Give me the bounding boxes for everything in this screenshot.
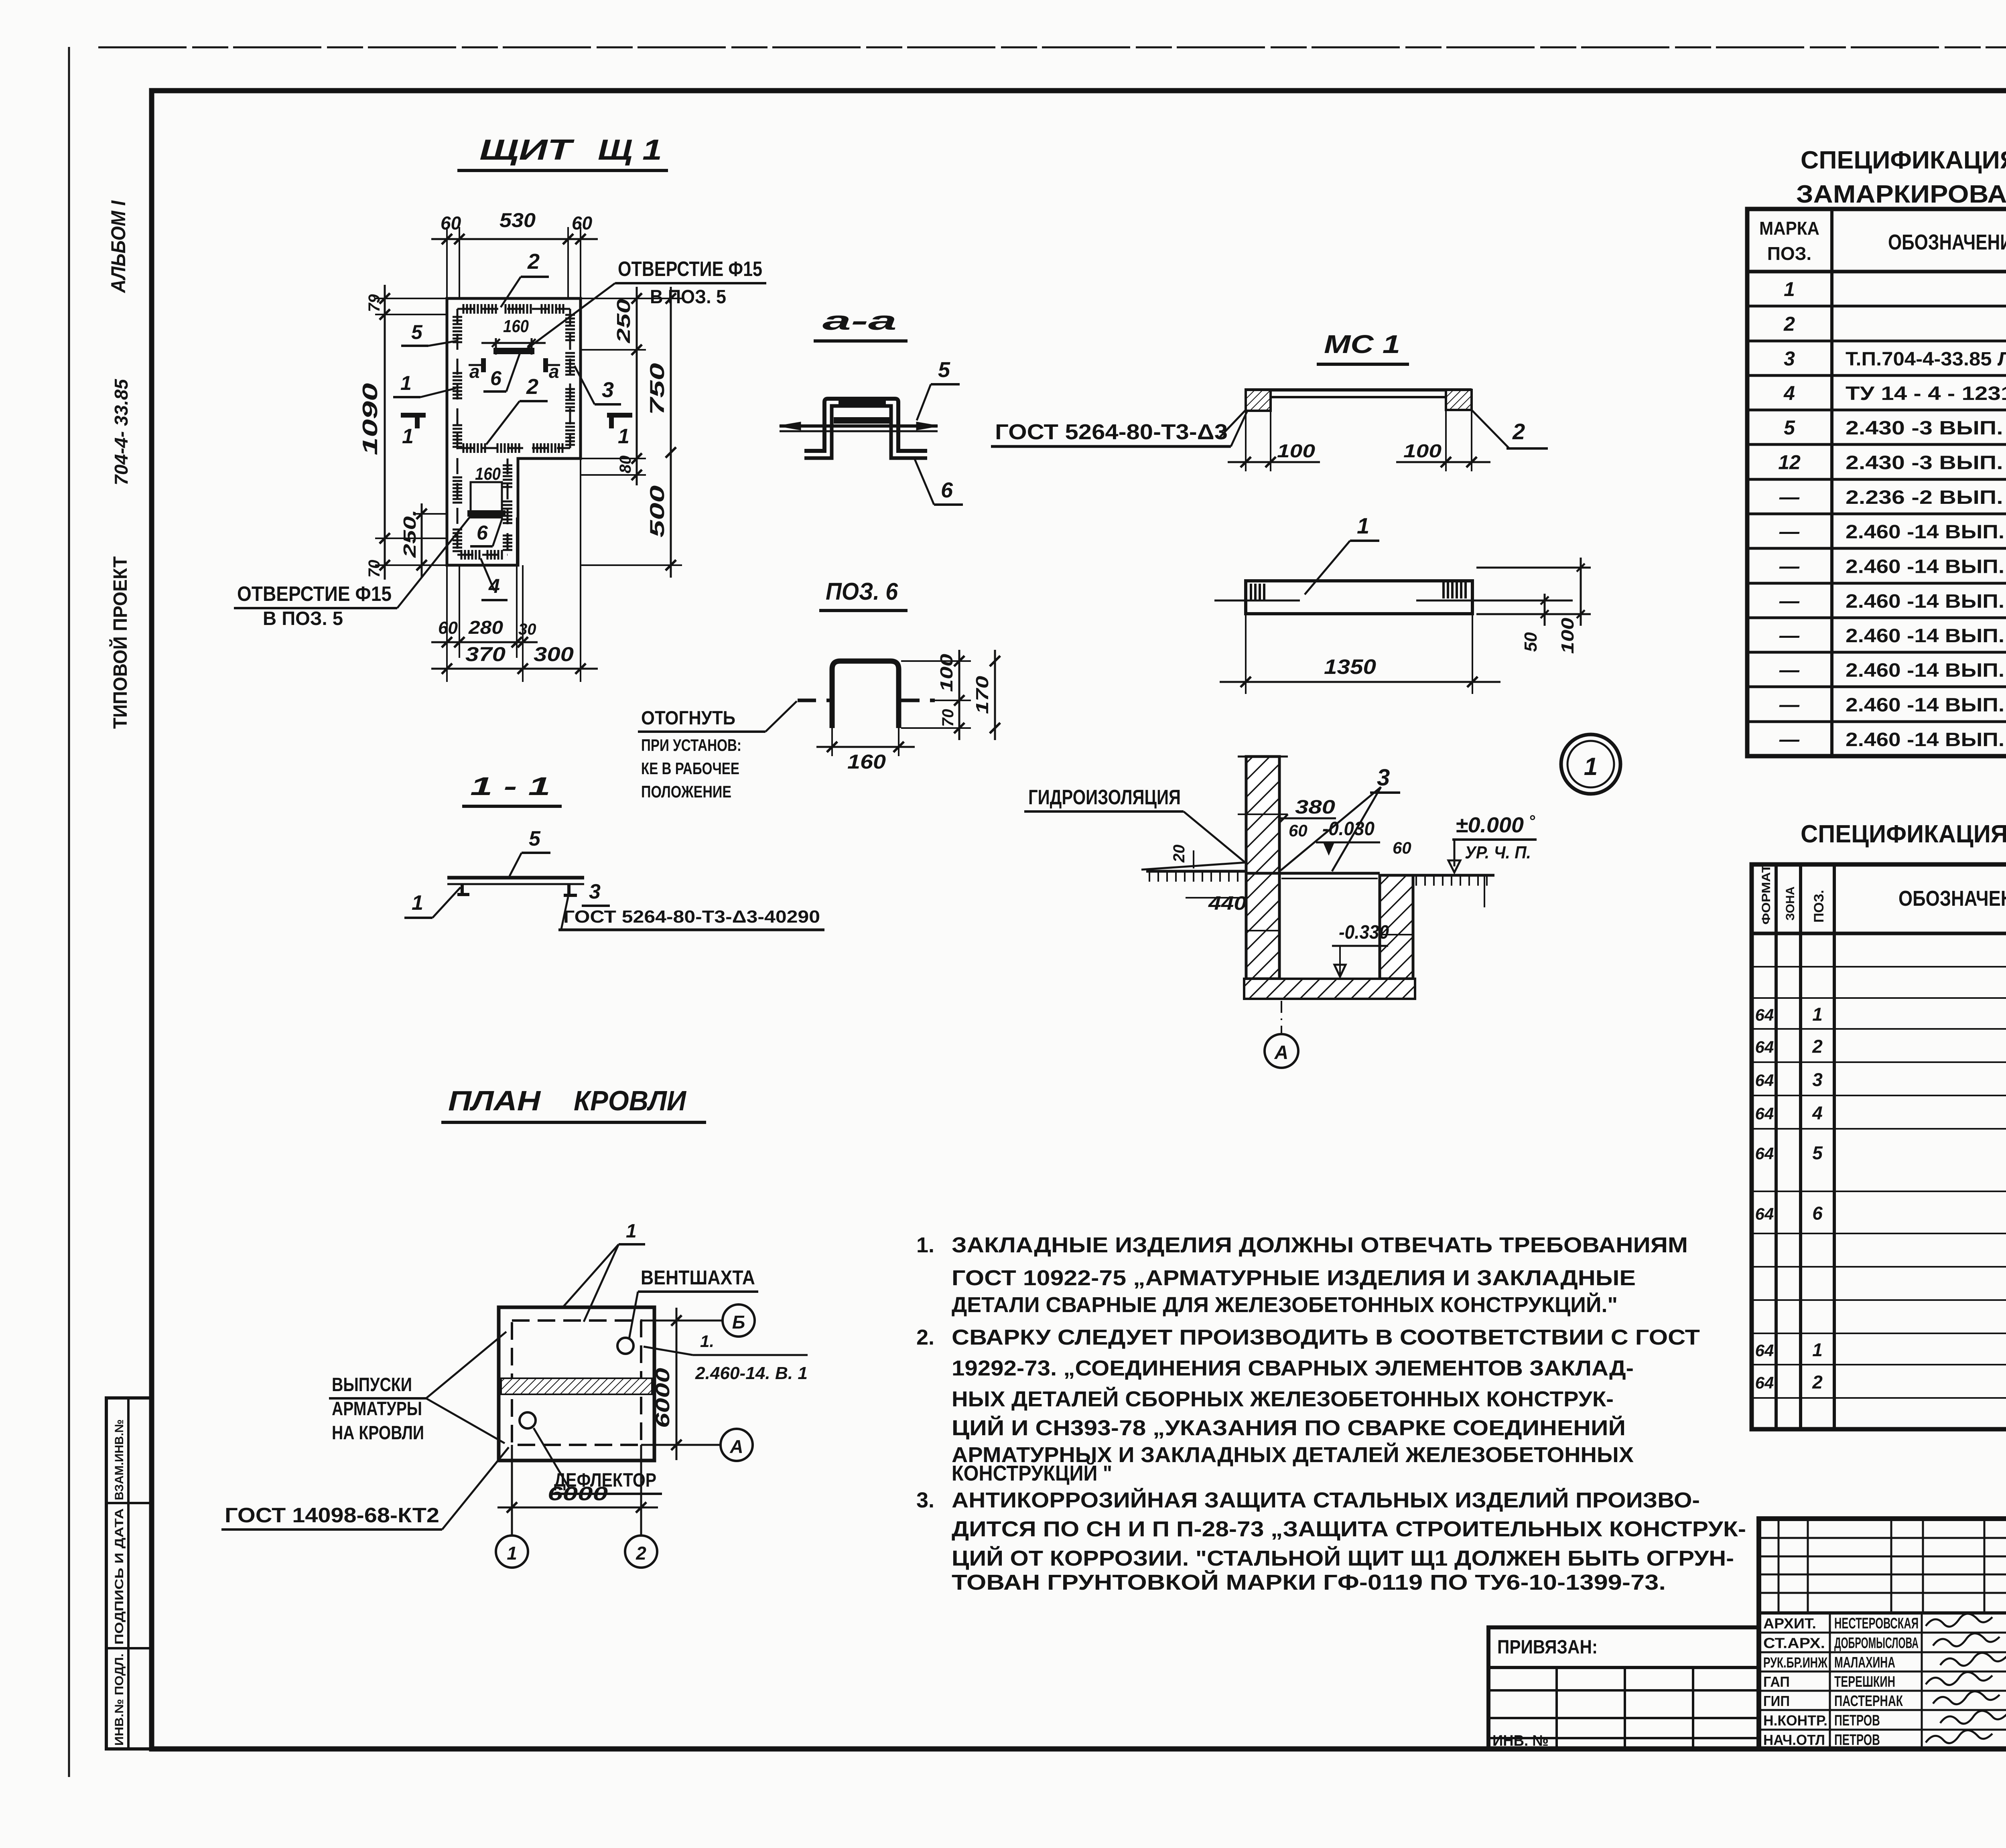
node: membrane [1141, 862, 1246, 870]
roof plan axis leader 2 [640, 1445, 642, 1536]
svg-text:60: 60 [441, 213, 461, 233]
svg-text:1 - 1: 1 - 1 [470, 772, 550, 801]
svg-text:ПОЗ.: ПОЗ. [1811, 890, 1827, 923]
roof plan inner dashed [512, 1321, 641, 1445]
svg-text:ГИДРОИЗОЛЯЦИЯ: ГИДРОИЗОЛЯЦИЯ [1028, 786, 1181, 809]
svg-text:500: 500 [646, 485, 668, 538]
svg-text:64: 64 [1755, 1205, 1774, 1223]
a-a weld scribble [834, 417, 890, 424]
svg-text:370: 370 [465, 643, 506, 665]
MC1 dim 1350 [1245, 614, 1247, 694]
svg-text:—: — [1779, 624, 1800, 647]
svg-text:1.: 1. [916, 1233, 934, 1257]
section mark 1 left [401, 413, 426, 418]
svg-text:3: 3 [602, 378, 614, 402]
svg-text:±0.000: ±0.000 [1456, 813, 1524, 837]
svg-text:ИНВ.№ ПОДЛ.: ИНВ.№ ПОДЛ. [113, 1653, 126, 1746]
node: axis circle A [1265, 1034, 1298, 1068]
svg-text:—: — [1779, 590, 1800, 612]
svg-text:1: 1 [507, 1543, 517, 1564]
svg-text:—: — [1779, 555, 1800, 578]
svg-text:ГАП: ГАП [1763, 1674, 1790, 1690]
svg-text:КЕ В РАБОЧЕЕ: КЕ В РАБОЧЕЕ [641, 759, 739, 778]
section mark a left [481, 358, 486, 372]
svg-text:170: 170 [973, 676, 992, 714]
node: wall above ground (hatched) [1246, 757, 1279, 873]
svg-text:ОБОЗНАЧЕНИЕ: ОБОЗНАЧЕНИЕ [1898, 886, 2006, 911]
svg-text:19292-73. „СОЕДИНЕНИЯ СВАРНЫХ: 19292-73. „СОЕДИНЕНИЯ СВАРНЫХ ЭЛЕМЕНТОВ … [952, 1356, 1634, 1380]
section mark 1 right [607, 413, 632, 418]
svg-text:2: 2 [1512, 419, 1525, 444]
axis circle A (plan) [721, 1429, 753, 1461]
svg-text:НЫХ ДЕТАЛЕЙ СБОРНЫХ ЖЕЛЕЗОБЕТО: НЫХ ДЕТАЛЕЙ СБОРНЫХ ЖЕЛЕЗОБЕТОННЫХ КОНСТ… [952, 1387, 1614, 1411]
svg-text:160: 160 [475, 464, 501, 484]
svg-text:2.460 -14 ВЫП. 1: 2.460 -14 ВЫП. 1 [1846, 695, 2006, 716]
svg-text:ТИПОВОЙ ПРОЕКТ: ТИПОВОЙ ПРОЕКТ [109, 556, 131, 729]
svg-text:704-4- 33.85: 704-4- 33.85 [111, 379, 132, 485]
svg-text:ДИТСЯ ПО СН И П П-28-73 „ЗАЩИТ: ДИТСЯ ПО СН И П П-28-73 „ЗАЩИТА СТРОИТЕЛ… [952, 1517, 1746, 1541]
svg-text:2.460 -14 ВЫП. 1: 2.460 -14 ВЫП. 1 [1846, 660, 2006, 681]
svg-text:Щ 1: Щ 1 [598, 134, 662, 166]
svg-text:1: 1 [412, 891, 423, 915]
svg-text:60: 60 [572, 213, 593, 233]
svg-text:64: 64 [1755, 1373, 1774, 1392]
MC1 dims 50/100 right [1476, 567, 1591, 569]
svg-text:100: 100 [937, 653, 956, 692]
svg-text:СВАРКУ СЛЕДУЕТ ПРОИЗВОДИТЬ В С: СВАРКУ СЛЕДУЕТ ПРОИЗВОДИТЬ В СООТВЕТСТВИ… [952, 1325, 1700, 1349]
svg-text:1: 1 [1784, 278, 1795, 300]
MC1 top plate [1245, 388, 1472, 392]
svg-text:1090: 1090 [359, 383, 382, 455]
MC1 bar centerline [1214, 600, 1300, 602]
svg-text:НА КРОВЛИ: НА КРОВЛИ [332, 1422, 424, 1444]
panel inner dashed weld lines [457, 308, 570, 310]
svg-text:-0.330: -0.330 [1339, 922, 1389, 943]
a-a tie rod with arrow ends [780, 424, 938, 428]
node: floor line over pit [1279, 872, 1380, 875]
svg-text:1: 1 [402, 425, 414, 448]
svg-text:50: 50 [1521, 632, 1541, 652]
svg-text:ТУ 14 - 4 - 1231- 83: ТУ 14 - 4 - 1231- 83 [1846, 383, 2006, 404]
svg-text:3.: 3. [916, 1488, 934, 1512]
svg-text:ЦИЙ ОТ КОРРОЗИИ. "СТАЛЬНОЙ ЩИТ: ЦИЙ ОТ КОРРОЗИИ. "СТАЛЬНОЙ ЩИТ Щ1 ДОЛЖЕН… [952, 1546, 1734, 1570]
svg-text:4: 4 [1812, 1103, 1823, 1124]
svg-text:ПЕТРОВ: ПЕТРОВ [1834, 1712, 1880, 1729]
svg-text:64: 64 [1755, 1144, 1774, 1163]
svg-text:60: 60 [1289, 821, 1308, 840]
svg-text:ОТОГНУТЬ: ОТОГНУТЬ [641, 708, 735, 729]
roof plan square [499, 1307, 654, 1461]
panel Sch1 outline [447, 298, 581, 565]
svg-text:А: А [729, 1436, 743, 1457]
MC1 right end block [1446, 390, 1472, 410]
svg-text:МАРКА: МАРКА [1759, 218, 1819, 239]
section mark a right [543, 358, 548, 372]
svg-text:2.430 -3 ВЫП. 2: 2.430 -3 ВЫП. 2 [1846, 418, 2006, 439]
svg-text:2.460 -14 ВЫП. 1: 2.460 -14 ВЫП. 1 [1846, 591, 2006, 612]
svg-text:ИНВ. №: ИНВ. № [1492, 1732, 1549, 1749]
svg-text:64: 64 [1755, 1038, 1774, 1057]
svg-text:АРМАТУРЫ: АРМАТУРЫ [332, 1398, 422, 1420]
MC1 leader to weld note [1220, 410, 1246, 437]
pos.6 dim 160 [831, 728, 833, 756]
svg-text:НАЧ.ОТЛ: НАЧ.ОТЛ [1763, 1732, 1825, 1748]
svg-text:2.460 -14 ВЫП. 1: 2.460 -14 ВЫП. 1 [1846, 625, 2006, 647]
svg-text:МС 1: МС 1 [1324, 330, 1400, 359]
svg-text:МАЛАХИНА: МАЛАХИНА [1834, 1654, 1895, 1671]
svg-text:А: А [1274, 1042, 1289, 1063]
svg-text:2.: 2. [916, 1325, 934, 1349]
roof plan axis leader 1 [511, 1445, 513, 1536]
pos.6 staple [832, 661, 899, 728]
node: ground line right [1413, 874, 1494, 877]
svg-text:ПАСТЕРНАК: ПАСТЕРНАК [1834, 1693, 1903, 1710]
svg-text:1: 1 [1812, 1339, 1823, 1360]
dim bottom 370/300 [580, 458, 581, 682]
svg-text:Н.КОНТР.: Н.КОНТР. [1763, 1712, 1827, 1729]
svg-text:ЩИТ: ЩИТ [479, 134, 575, 166]
svg-text:В ПОЗ. 5: В ПОЗ. 5 [650, 286, 726, 308]
weld tick marks top edge [463, 304, 465, 314]
weld tick marks middle edge [463, 443, 465, 453]
svg-text:АРХИТ.: АРХИТ. [1763, 1615, 1816, 1632]
roof plan dim 6000 bottom [511, 1461, 513, 1522]
axis circle B [723, 1304, 755, 1337]
svg-text:4: 4 [1783, 382, 1795, 404]
svg-text:КРОВЛИ: КРОВЛИ [574, 1085, 687, 1116]
svg-text:—: — [1779, 659, 1800, 681]
svg-text:ГОСТ 10922-75 „АРМАТУРНЫЕ ИЗДЕ: ГОСТ 10922-75 „АРМАТУРНЫЕ ИЗДЕЛИЯ И ЗАКЛ… [952, 1266, 1636, 1290]
svg-text:Б: Б [732, 1312, 745, 1333]
svg-text:100: 100 [1277, 440, 1316, 461]
svg-text:СПЕЦИФИКАЦИЯ ДЕТАЛЕЙ ЩИТА Щ: СПЕЦИФИКАЦИЯ ДЕТАЛЕЙ ЩИТА Щ1, ИЗДЕЛИЯ МС… [1801, 820, 2006, 848]
svg-text:2.460 -14 ВЫП. 1: 2.460 -14 ВЫП. 1 [1846, 556, 2006, 578]
MC1 dim 100 left [1245, 411, 1247, 471]
bottom hole 160 frame [471, 482, 502, 517]
svg-text:ПОЗ.: ПОЗ. [1767, 243, 1811, 264]
svg-text:ПЛАН: ПЛАН [448, 1085, 541, 1116]
node: pit left wall [1246, 873, 1279, 979]
svg-text:ПОЛОЖЕНИЕ: ПОЛОЖЕНИЕ [641, 782, 731, 801]
svg-text:80: 80 [617, 456, 634, 474]
svg-text:ДОБРОМЫСЛОВА: ДОБРОМЫСЛОВА [1834, 1635, 1919, 1652]
spec table 1 grid [1747, 209, 2006, 756]
pos.6 wire stubs dashed [798, 699, 830, 702]
svg-text:2.236 -2 ВЫП. 1: 2.236 -2 ВЫП. 1 [1846, 487, 2006, 508]
svg-text:ТОВАН ГРУНТОВКОЙ МАРКИ ГФ-0119: ТОВАН ГРУНТОВКОЙ МАРКИ ГФ-0119 ПО ТУ6-10… [952, 1570, 1666, 1594]
node: ground line left [1146, 870, 1246, 873]
svg-text:64: 64 [1755, 1104, 1774, 1123]
svg-text:5: 5 [938, 358, 950, 382]
svg-text:ГОСТ 5264-80-Т3-Δ3: ГОСТ 5264-80-Т3-Δ3 [995, 420, 1228, 444]
svg-text:ЗАКЛАДНЫЕ ИЗДЕЛИЯ ДОЛЖНЫ ОТВЕЧ: ЗАКЛАДНЫЕ ИЗДЕЛИЯ ДОЛЖНЫ ОТВЕЧАТЬ ТРЕБОВ… [952, 1233, 1688, 1257]
svg-text:ВЗАМ.ИНВ.№: ВЗАМ.ИНВ.№ [113, 1419, 126, 1500]
svg-text:60: 60 [438, 618, 458, 638]
page outer trim line top (dashed) [98, 47, 2006, 49]
svg-text:300: 300 [534, 643, 574, 665]
top hole slot (pos.6 bar) [493, 348, 534, 354]
svg-text:ФОРМАТ: ФОРМАТ [1760, 864, 1773, 925]
svg-text:12: 12 [1778, 451, 1801, 474]
svg-text:ГИП: ГИП [1763, 1693, 1790, 1709]
MC1 dim 100 right [1445, 410, 1447, 471]
svg-text:НЕСТЕРОВСКАЯ: НЕСТЕРОВСКАЯ [1834, 1615, 1919, 1632]
svg-text:1: 1 [1584, 753, 1598, 781]
svg-text:ПРИ УСТАНОВ:: ПРИ УСТАНОВ: [641, 736, 741, 755]
dim right 250/80 [581, 298, 646, 299]
svg-text:6: 6 [490, 367, 502, 389]
svg-text:3: 3 [1812, 1069, 1823, 1090]
privyazan box [1488, 1627, 1759, 1749]
svg-text:64: 64 [1755, 1071, 1774, 1090]
svg-text:2.460 -14 ВЫП. 1: 2.460 -14 ВЫП. 1 [1846, 521, 2006, 543]
MC1 left end block [1246, 390, 1271, 411]
svg-text:—: — [1779, 728, 1800, 751]
roof plan dim 6000 right [654, 1320, 690, 1321]
svg-text:УР. Ч. П.: УР. Ч. П. [1465, 843, 1531, 862]
title block frame [1759, 1519, 2006, 1749]
dim left 79/1090/70 [375, 298, 447, 299]
dim chain top 60/530/60 [446, 227, 448, 298]
dim right 750/500 [581, 298, 682, 299]
dim bottom 60/280/30 [446, 565, 448, 682]
dim 160 top hole [481, 342, 546, 344]
svg-text:ПЕТРОВ: ПЕТРОВ [1834, 1732, 1880, 1749]
svg-text:2.430 -3 ВЫП. 2: 2.430 -3 ВЫП. 2 [1846, 452, 2006, 474]
svg-text:20: 20 [1170, 845, 1188, 863]
svg-text:СТ.АРХ.: СТ.АРХ. [1763, 1635, 1825, 1651]
svg-text:РУК.БР.ИНЖ: РУК.БР.ИНЖ [1763, 1654, 1827, 1671]
svg-text:2: 2 [526, 375, 538, 399]
svg-text:100: 100 [1403, 440, 1442, 461]
weld tick marks lower strip [503, 465, 512, 467]
svg-text:ВЫПУСКИ: ВЫПУСКИ [332, 1374, 412, 1396]
svg-text:2: 2 [527, 250, 540, 274]
svg-text:6000: 6000 [652, 1368, 674, 1428]
svg-text:60: 60 [1393, 838, 1411, 857]
svg-text:ДЕТАЛИ СВАРНЫЕ ДЛЯ ЖЕЛЕЗОБЕТОН: ДЕТАЛИ СВАРНЫЕ ДЛЯ ЖЕЛЕЗОБЕТОННЫХ КОНСТР… [952, 1292, 1618, 1317]
svg-text:3: 3 [589, 880, 601, 903]
svg-text:6: 6 [941, 478, 953, 502]
svg-text:1: 1 [400, 372, 412, 394]
svg-text:ЦИЙ И СН393-78 „УКАЗАНИЯ ПО СВ: ЦИЙ И СН393-78 „УКАЗАНИЯ ПО СВАРКЕ СОЕДИ… [952, 1416, 1626, 1440]
svg-text:ГОСТ 5264-80-Т3-Δ3-40290: ГОСТ 5264-80-Т3-Δ3-40290 [563, 907, 820, 927]
svg-text:1.: 1. [700, 1332, 714, 1351]
svg-text:6: 6 [477, 521, 488, 544]
svg-text:2.460 -14 ВЫП. 1: 2.460 -14 ВЫП. 1 [1846, 729, 2006, 751]
node: pit bottom slab [1244, 979, 1415, 999]
ventshaft circle on plan [617, 1338, 633, 1354]
svg-text:ОТВЕРСТИЕ Ф15: ОТВЕРСТИЕ Ф15 [237, 582, 392, 606]
svg-text:5: 5 [1812, 1142, 1823, 1163]
svg-text:ВЕНТШАХТА: ВЕНТШАХТА [641, 1266, 755, 1289]
spec table 2 grid [1752, 864, 2006, 1429]
svg-text:1350: 1350 [1324, 655, 1376, 679]
svg-text:30: 30 [518, 621, 536, 638]
page outer trim line left [68, 47, 70, 1777]
svg-text:5: 5 [529, 827, 541, 850]
svg-text:°: ° [1529, 812, 1535, 830]
svg-text:3: 3 [1784, 347, 1795, 370]
svg-text:—: — [1779, 486, 1800, 508]
svg-text:250.: 250. [400, 509, 420, 558]
svg-text:а-а: а-а [822, 306, 897, 335]
svg-text:3: 3 [1377, 765, 1390, 791]
svg-text:5: 5 [1784, 416, 1795, 439]
svg-text:440: 440 [1208, 893, 1247, 914]
MC1 bar pos.1 [1246, 581, 1472, 614]
node: pit right wall [1380, 875, 1413, 979]
svg-text:а: а [469, 361, 480, 382]
title block staff rows [1759, 1632, 2006, 1634]
svg-text:ПОЗ. 6: ПОЗ. 6 [826, 578, 898, 605]
left sidebar strip [106, 1398, 152, 1749]
svg-text:530: 530 [499, 209, 536, 231]
signatures [1926, 1614, 1992, 1627]
dim left 250 [413, 513, 447, 515]
svg-text:160: 160 [503, 316, 529, 336]
svg-text:ЗОНА: ЗОНА [1784, 886, 1797, 921]
1-1 left clip [461, 884, 464, 895]
deflector circle on plan [520, 1412, 536, 1428]
1-1 plate [447, 876, 584, 880]
svg-text:ПРИВЯЗАН:: ПРИВЯЗАН: [1497, 1637, 1598, 1658]
svg-text:2: 2 [1812, 1372, 1823, 1393]
svg-text:ПОДПИСЬ И ДАТА: ПОДПИСЬ И ДАТА [113, 1508, 126, 1645]
svg-text:ГОСТ 14098-68-КТ2: ГОСТ 14098-68-КТ2 [225, 1504, 439, 1527]
svg-text:70: 70 [365, 560, 383, 578]
roof plan axis leader A [641, 1444, 721, 1446]
bottom hole slot [467, 510, 506, 517]
svg-text:ТЕРЕШКИН: ТЕРЕШКИН [1834, 1674, 1895, 1690]
svg-text:—: — [1779, 694, 1800, 716]
svg-text:1: 1 [1357, 513, 1369, 538]
svg-text:64: 64 [1755, 1341, 1774, 1360]
svg-text:ЗАМАРКИРОВАННЫХ НА ЛИСТА: ЗАМАРКИРОВАННЫХ НА ЛИСТАХ 3 ... 5. [1796, 181, 2006, 208]
svg-text:В ПОЗ. 5: В ПОЗ. 5 [263, 608, 343, 629]
axis circle 1 (plan) [496, 1536, 528, 1568]
svg-text:250: 250 [613, 298, 634, 343]
svg-text:2: 2 [1783, 313, 1795, 335]
roof plan axis leader B [641, 1320, 723, 1322]
svg-text:ОБОЗНАЧЕНИЕ: ОБОЗНАЧЕНИЕ [1888, 230, 2006, 254]
svg-text:КОНСТРУКЦИЙ ": КОНСТРУКЦИЙ " [952, 1461, 1112, 1485]
a-a hat profile (pos.5 sheet) [804, 399, 927, 451]
svg-text:64: 64 [1755, 1006, 1774, 1024]
svg-text:2.460-14. В. 1: 2.460-14. В. 1 [695, 1363, 808, 1383]
svg-text:380: 380 [1295, 797, 1335, 818]
top hole 160 frame [495, 338, 497, 355]
pos.6 dim 100/70 [901, 660, 971, 662]
weld tick marks right edge [565, 314, 575, 316]
node: marker circle 1 [1561, 734, 1620, 794]
svg-text:70: 70 [939, 709, 957, 727]
svg-text:Т.П.704-4-33.85 ЛИСТ 3: Т.П.704-4-33.85 ЛИСТ 3 [1846, 349, 2006, 370]
roof plan hatched band [501, 1378, 652, 1394]
svg-text:АЛЬБОМ I: АЛЬБОМ I [107, 200, 130, 294]
axis circle 2 (plan) [625, 1536, 657, 1568]
svg-text:1: 1 [626, 1221, 637, 1242]
svg-text:6: 6 [1812, 1203, 1823, 1224]
weld tick marks left edge [453, 316, 462, 318]
svg-text:280: 280 [468, 617, 504, 638]
svg-text:79: 79 [365, 294, 383, 312]
svg-text:1: 1 [1812, 1004, 1823, 1025]
svg-text:160: 160 [847, 751, 886, 773]
MC1 bar weld marks [1250, 584, 1252, 600]
pos.6 dim 170 [994, 650, 996, 740]
svg-text:АНТИКОРРОЗИЙНАЯ ЗАЩИТА СТАЛЬНЫ: АНТИКОРРОЗИЙНАЯ ЗАЩИТА СТАЛЬНЫХ ИЗДЕЛИЙ … [952, 1488, 1700, 1512]
svg-text:СПЕЦИФИКАЦИЯ СТАЛЬНЫХ ЭЛ: СПЕЦИФИКАЦИЯ СТАЛЬНЫХ ЭЛЕМЕНТОВ, [1801, 146, 2006, 174]
svg-text:750: 750 [646, 363, 668, 415]
svg-text:ОТВЕРСТИЕ Ф15: ОТВЕРСТИЕ Ф15 [618, 258, 762, 281]
svg-text:2: 2 [636, 1543, 646, 1564]
svg-text:—: — [1779, 520, 1800, 543]
svg-text:а: а [549, 361, 559, 382]
svg-text:5: 5 [411, 321, 423, 343]
svg-text:100: 100 [1558, 617, 1578, 654]
svg-text:1: 1 [618, 425, 629, 448]
svg-text:2: 2 [1812, 1036, 1823, 1057]
1-1 right clip [567, 884, 571, 895]
title block top-left grid [1759, 1537, 2006, 1539]
